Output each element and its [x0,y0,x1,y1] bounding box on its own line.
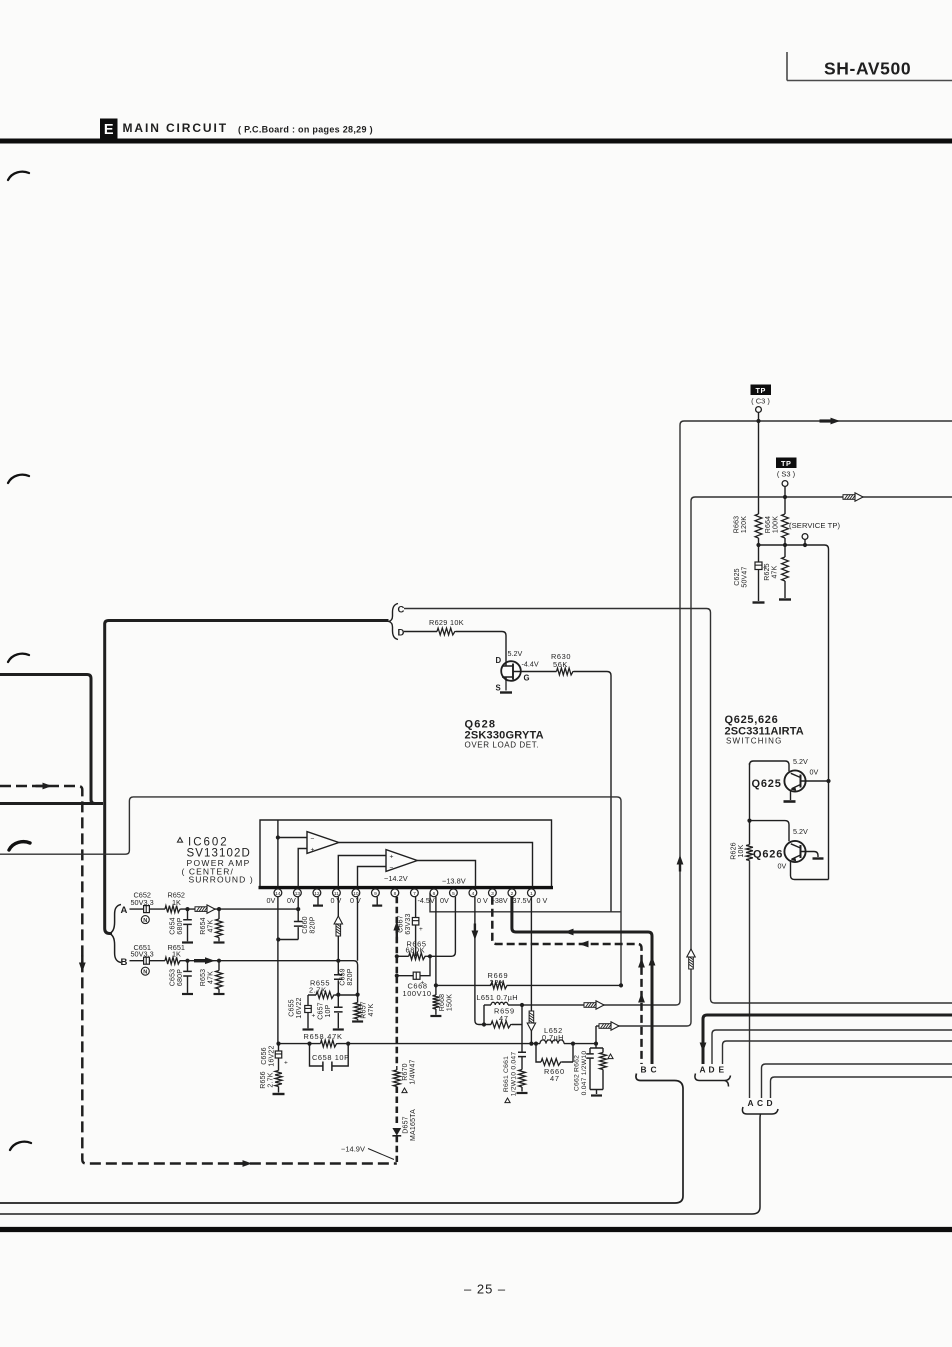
label service TP [789,521,841,530]
svg-text:8: 8 [394,891,397,897]
node B label [121,957,128,968]
svg-text:TP: TP [756,386,766,395]
svg-text:16V22: 16V22 [296,997,303,1018]
svg-text:C625: C625 [734,568,741,586]
wire pin5 column [430,897,455,957]
arrow pin3 net [579,941,589,948]
arrow on dashed wire top [36,783,53,790]
svg-text:– 25 –: – 25 – [464,1282,506,1297]
arrow TP line [820,418,841,425]
wire pin10 column [357,897,359,961]
arrow ADE-A [700,1043,707,1053]
arrow pin3 vertical b [638,993,645,1003]
svg-text:C: C [398,605,405,616]
arrow on dashed wire bottom [236,1160,253,1167]
hand mark [8,475,29,483]
svg-text:47: 47 [499,1014,509,1023]
resistor R626 [731,842,753,860]
svg-text:47K: 47K [208,919,215,932]
junction divider 1 [756,543,787,547]
svg-text:4: 4 [472,891,475,897]
hand mark [8,654,29,662]
svg-text:R664: R664 [765,516,772,534]
svg-text:−: − [390,865,394,872]
svg-text:S: S [496,684,501,693]
IC602 box [260,820,552,887]
wire row B [130,961,358,995]
op-amp U1b [386,850,417,872]
svg-text:5: 5 [452,891,455,897]
svg-text:50V47: 50V47 [742,566,749,587]
bottom rule thick [0,1227,952,1232]
wire run ADE-A [703,1015,952,1064]
wire Q625 emitter [790,790,792,801]
svg-text:A: A [121,905,128,916]
arrow L651 out [584,1001,604,1009]
resistor R630 [551,652,574,675]
wire pin3 net [492,897,641,1064]
svg-text:0V: 0V [267,896,276,905]
node D label [398,628,405,639]
badge TP(C3) [751,385,772,406]
wire pin8 column mid [395,1087,398,1127]
svg-text:−14.9V: −14.9V [341,1145,365,1154]
svg-text:0.047 1/2W10: 0.047 1/2W10 [581,1051,588,1096]
wire U1a output [339,843,533,887]
svg-text:37.5V: 37.5V [513,896,532,905]
arrow L652 out [599,1022,619,1030]
label R651 [168,943,185,959]
svg-text:A: A [748,1098,754,1108]
node C label [398,605,405,616]
wire zobel2 up [595,1026,597,1044]
wire R663 bottom [758,538,760,545]
svg-text:OVER LOAD DET.: OVER LOAD DET. [465,741,540,750]
svg-text:R626: R626 [731,842,738,860]
svg-text:0 V: 0 V [537,896,548,905]
capacitor C651 [144,957,150,964]
svg-text:2.7K: 2.7K [268,1072,275,1087]
junction R657 top [356,993,360,997]
svg-text:100K: 100K [773,516,780,533]
brace AB [109,905,121,963]
wire R669 net [436,984,621,986]
junction pin11 [336,993,340,997]
wire pin6 column [435,897,437,995]
svg-text:D: D [767,1098,773,1108]
wire node CD to brace AB vertical [105,624,112,934]
junction zobel2 [594,1042,598,1046]
wire pin2 net [512,897,652,1064]
section badge E [100,119,118,139]
svg-text:50V3.3: 50V3.3 [131,898,154,907]
hand mark [9,842,30,850]
svg-text:( P.C.Board : on pages 28,29 ): ( P.C.Board : on pages 28,29 ) [238,124,373,134]
junction R669 right [619,983,623,987]
arrow TP vertical [677,855,684,872]
svg-text:B: B [121,957,128,968]
svg-text:C662 R662: C662 R662 [574,1055,581,1091]
title MAIN CIRCUIT [123,121,373,135]
svg-text:N: N [143,970,147,976]
capacitor C662 [574,1048,594,1095]
capacitor C654 [170,909,192,941]
terminal TP C3 [756,407,762,413]
junction pin1 bottom [529,1042,533,1046]
svg-text:47K: 47K [368,1003,375,1016]
svg-text:C654: C654 [170,917,177,935]
wire CD horizontal [105,621,389,625]
ground R654 [214,941,225,943]
capacitor C655 [289,995,316,1028]
svg-text:-4.4V: -4.4V [522,660,539,669]
resistor R629 [429,618,464,635]
wire R655 net [308,994,358,996]
svg-text:E: E [719,1064,725,1074]
svg-text:D: D [398,628,405,639]
svg-text:0 V: 0 V [350,896,361,905]
arrow row B [194,957,215,964]
hand mark [8,172,29,180]
svg-text:0V: 0V [287,896,296,905]
svg-text:D: D [496,656,502,665]
arrow pin1 column [527,1011,535,1031]
ground R653 [214,993,225,995]
svg-text:680P: 680P [177,969,184,986]
svg-text:C: C [757,1098,763,1108]
wire dashed supply left [0,786,397,1164]
label R652 [168,891,185,907]
label C652 [131,891,154,907]
svg-text:R661 C661: R661 C661 [503,1056,510,1092]
svg-text:SWITCHING: SWITCHING [726,737,783,746]
resistor R652 [165,906,181,913]
svg-text:14: 14 [275,891,281,897]
wire run ACD-D [771,1077,952,1098]
badge TP(S3) [776,458,797,479]
IC602 pin bar [259,886,554,889]
label Q628 [465,719,544,750]
svg-text:R656: R656 [260,1071,267,1089]
resistor R669 [488,971,509,989]
svg-text:C653: C653 [170,969,177,987]
svg-text:( S3 ): ( S3 ) [777,470,796,479]
svg-text:C659: C659 [340,968,347,986]
svg-text:G: G [524,674,530,683]
bracket BC [0,1064,683,1203]
svg-text:1/2W10 0.047: 1/2W10 0.047 [511,1052,518,1097]
capacitor C658 loop [310,1044,350,1071]
svg-text:N: N [143,918,147,924]
svg-text:C656: C656 [261,1047,268,1065]
capacitor C660 [294,897,317,940]
svg-text:680P: 680P [177,917,184,934]
IC602 pins 1-14 [274,889,535,897]
resistor R659 [484,1005,522,1028]
transistor Q625 [752,757,829,792]
wire zobel2 top [590,1044,603,1048]
wire R626 column [749,763,751,845]
svg-text:-4.5V: -4.5V [418,896,435,905]
brace CD [389,604,399,640]
svg-text:0V: 0V [778,862,787,871]
label Q625 Q626 group [725,714,804,746]
label -13.8V [442,877,466,886]
svg-text:+: + [311,847,315,854]
junction pin14 branch [276,937,280,941]
resistor R651 [165,957,181,964]
wire node D left [404,631,437,633]
transistor Q628 [496,649,539,693]
svg-text:L651 0.7µH: L651 0.7µH [477,993,518,1002]
ground Q625 [784,800,796,803]
arrow pin4 column [472,924,479,941]
svg-text:5.2V: 5.2V [508,649,523,658]
terminal service TP [802,534,808,548]
ground C655 [303,1028,314,1030]
svg-text:MAIN CIRCUIT: MAIN CIRCUIT [123,121,228,135]
svg-text:47K: 47K [772,565,779,578]
junction Q626 collector [747,819,751,823]
label C651 [131,943,154,959]
wire branch to C660 [278,939,298,941]
wire pin14 riser [277,820,279,887]
capacitor C653 [170,961,192,993]
svg-text:100V10: 100V10 [403,989,432,998]
svg-text:10K: 10K [738,844,745,857]
wire U1b output [417,861,475,887]
svg-text:5.2V: 5.2V [793,757,808,766]
label -14.9V [341,1145,394,1160]
junction row B dots [185,959,340,963]
op-amp U1a [307,832,339,854]
svg-text:Q625,626: Q625,626 [725,714,779,726]
wire S3 stem [784,486,786,514]
svg-text:C: C [651,1064,657,1074]
wire U1a inv input [276,835,307,839]
hand mark [10,1142,31,1150]
resistor R662 [600,1048,614,1090]
capacitor C652 [144,906,150,913]
wire pin8 column lower [395,1136,398,1162]
svg-text:(SERVICE TP): (SERVICE TP) [789,521,841,530]
ground pin12 [313,897,323,906]
wire S3 line [596,497,952,1026]
resistor R668 [433,994,454,1015]
diode D657 [392,1109,417,1141]
svg-text:-38V: -38V [493,896,508,905]
svg-text:0.7µH: 0.7µH [542,1033,564,1042]
arrow pin3 vertical a [638,958,645,968]
wire U1b noninv input [338,856,386,887]
svg-text:47K: 47K [208,971,215,984]
svg-text:C655: C655 [289,999,296,1017]
label IC602 [177,837,253,885]
wire pin4 column [475,897,484,1025]
svg-text:R657: R657 [361,1001,368,1019]
label -14.2V [384,874,408,883]
resistor R663 [734,514,762,538]
resistor R665 [397,939,430,959]
resistor R656 [260,1071,282,1093]
wire output row [279,1043,597,1045]
svg-text:C658 10P: C658 10P [312,1053,350,1062]
wire U1b inv input [358,867,387,887]
svg-text:0V: 0V [440,896,449,905]
svg-text:9: 9 [374,891,377,897]
svg-text:150K: 150K [447,994,454,1011]
wire pin1 column [530,897,532,1044]
capacitor C659 [334,968,354,994]
junction TP [756,419,760,423]
arrow S3 vertical [687,949,695,969]
capacitor C625 [734,545,767,601]
capacitor C667 [398,897,424,957]
resistor R655 [309,978,335,998]
resistor R654 [200,909,222,941]
svg-text:C657: C657 [318,1002,325,1020]
terminal TP S3 [782,481,788,487]
junction output row [276,1042,575,1046]
resistor R664 [765,514,788,538]
svg-text:TP: TP [781,459,791,468]
svg-text:+: + [312,1013,316,1020]
wire bus horizontal y912 [430,893,621,912]
svg-text:5.2V: 5.2V [793,827,808,836]
header rule [0,139,952,144]
svg-text:R629 10K: R629 10K [429,618,464,627]
svg-text:E: E [104,122,114,138]
svg-text:R653: R653 [200,969,207,987]
svg-text:Q626: Q626 [753,849,783,861]
svg-text:Q625: Q625 [752,778,782,790]
svg-text:63V33: 63V33 [405,913,412,934]
svg-text:120K: 120K [741,516,748,533]
wire Q628 gate [521,671,557,673]
svg-text:D657: D657 [403,1116,410,1134]
wire TP stem [758,412,760,514]
resistor R660 [536,1044,573,1083]
model label SH-AV500 [787,52,952,81]
svg-text:820P: 820P [310,916,317,933]
svg-text:R668: R668 [439,994,446,1012]
ground R656 [273,1093,285,1095]
resistor R658 [304,1032,343,1047]
arrow on dashed wire vertical [79,956,86,973]
svg-text:R670: R670 [402,1063,409,1081]
svg-text:C660: C660 [302,916,309,934]
ground zobel2 [590,1090,603,1096]
transistor Q626 [753,827,818,871]
wire thick feed lower [0,802,103,805]
pin voltage labels [267,896,548,905]
svg-text:+: + [284,1060,288,1067]
svg-text:−: − [311,835,315,842]
svg-text:+: + [390,853,394,860]
resistor R661 [519,1070,526,1092]
resistor R657 [354,995,375,1021]
svg-text:MA165TA: MA165TA [410,1109,417,1141]
svg-text:−13.8V: −13.8V [442,877,466,886]
ground R661 [517,1092,528,1094]
junction pin6 [434,983,438,987]
svg-text:10P: 10P [325,1004,332,1017]
svg-text:R663: R663 [734,516,741,534]
ground R625 [779,598,791,600]
ground pin9 [372,897,382,906]
svg-text:0V: 0V [810,768,819,777]
svg-text:+: + [419,926,423,933]
ground C657 [333,1028,344,1030]
svg-text:16V22: 16V22 [269,1045,276,1066]
junction row A dots [185,907,300,911]
arrow pin2 vertical [649,956,656,966]
svg-text:D: D [709,1064,715,1074]
junction pin8 a [395,954,399,978]
wire node C [404,609,952,1004]
wire U1a noninv input [298,849,307,887]
junction R665 right [428,954,432,958]
svg-text:820P: 820P [347,968,354,985]
capacitor C661 [503,1025,526,1103]
svg-text:−14.2V: −14.2V [384,874,408,883]
svg-text:22K: 22K [490,978,506,987]
wire pin14 column [277,897,279,1044]
capacitor C656 [261,1044,288,1071]
svg-text:1/4W47: 1/4W47 [410,1059,417,1084]
node A label [121,905,128,916]
svg-text:SURROUND ): SURROUND ) [189,875,254,885]
svg-text:2.7K: 2.7K [309,985,327,994]
resistor R625 [764,545,788,598]
svg-text:B: B [641,1064,647,1074]
svg-text:680K: 680K [406,945,426,954]
capacitor C657 [318,995,343,1029]
junction S3 [783,495,787,499]
svg-text:0 V: 0 V [331,896,342,905]
ground C654 [182,941,193,943]
svg-text:R625: R625 [764,563,771,581]
svg-text:56K: 56K [553,660,568,669]
wire Q626 collector route [750,821,790,842]
wire thick feed upper [0,675,101,804]
svg-text:SH-AV500: SH-AV500 [824,59,911,79]
svg-text:A: A [700,1064,706,1074]
resistor R670 [393,1059,416,1092]
arrow pin8 column [393,921,400,938]
wire supply Z-trace [0,797,621,986]
svg-text:R654: R654 [200,917,207,935]
bracket ACD [0,1098,778,1214]
svg-text:12: 12 [314,891,320,897]
svg-text:R658 47K: R658 47K [304,1032,343,1041]
bracket ADE [695,1064,731,1086]
wire R626 down [749,861,751,1099]
ground R657 [352,1020,363,1022]
wire run ADE-D [712,1030,952,1064]
inductor L652 [540,1026,564,1044]
arrow S3 line [843,493,863,501]
resistor R653 [200,961,222,993]
ground C653 [182,993,193,995]
wire run ACD-C [762,1064,952,1098]
junction Q625 base [826,779,830,783]
wire Q626 emitter [791,860,829,880]
wire row A [130,908,299,910]
inductor L651 [477,993,523,1005]
svg-text:C667: C667 [398,915,405,933]
symbol N circle B [141,967,149,976]
